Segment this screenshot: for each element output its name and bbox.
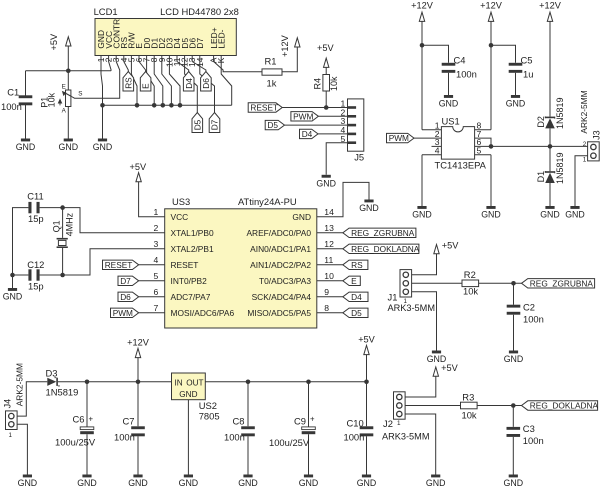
junction C8 tap [246, 380, 251, 385]
ground (C9) [299, 475, 319, 487]
wire C8 leads [247, 382, 249, 475]
net flag E (US3 pin10) [343, 276, 361, 286]
svg-text:+5V: +5V [130, 162, 147, 172]
svg-text:D4: D4 [184, 78, 194, 89]
svg-text:ARK3-5MM: ARK3-5MM [382, 431, 429, 441]
wire LCD pin 4 to flag RS [124, 56, 129, 72]
svg-text:US1: US1 [442, 115, 460, 126]
net flag RS (US3 pin11) [343, 260, 368, 270]
wire C7 leads [137, 382, 139, 475]
ground (C5) [506, 95, 526, 109]
svg-text:ARK2-5MM: ARK2-5MM [579, 90, 589, 133]
wire D5 to J5 pin3 [285, 124, 348, 126]
wire +12V arrow stem [137, 358, 139, 382]
ground (J5) [316, 175, 336, 189]
svg-text:LCD HD44780 2x8: LCD HD44780 2x8 [160, 6, 239, 17]
junction crystal bottom [60, 273, 65, 278]
power +5V (US3 VCC) [130, 162, 147, 182]
svg-text:D6: D6 [120, 292, 131, 302]
svg-text:C6: C6 [73, 413, 85, 424]
net flag REG_DOKLADNA (J2) [522, 401, 599, 411]
svg-text:+5V: +5V [442, 241, 459, 251]
wire C3 leads [512, 406, 514, 475]
svg-text:J4: J4 [2, 399, 12, 409]
svg-text:2: 2 [583, 141, 587, 148]
svg-text:15p: 15p [28, 281, 44, 292]
wire C6 leads [86, 382, 88, 475]
svg-text:100n: 100n [114, 431, 135, 442]
svg-text:D7: D7 [120, 276, 131, 286]
wire R3 to REG_DOKLADNA [477, 405, 521, 407]
wire US3 pin14 to GND [317, 182, 369, 216]
diode D2 1N5819 [536, 97, 565, 129]
svg-text:12: 12 [324, 239, 334, 249]
connector J1 box [400, 270, 412, 297]
wire C4 leads [422, 45, 449, 95]
wire US1 pin3 stub [432, 145, 442, 147]
svg-text:1: 1 [583, 157, 587, 164]
svg-text:+5V: +5V [317, 43, 334, 53]
capacitor C5 [509, 63, 523, 73]
wire J1 pin1 to +5V [412, 254, 437, 275]
power +5V (LCD contrast) [49, 33, 71, 50]
junction R3/C3 [511, 403, 516, 408]
svg-text:100u/25V: 100u/25V [55, 436, 96, 447]
wire AREF to REG_ZGRUBNA [317, 232, 343, 234]
svg-text:AIN1/ADC2/PA2: AIN1/ADC2/PA2 [250, 260, 311, 270]
power +5V (J1) [434, 241, 459, 254]
svg-text:1: 1 [154, 207, 159, 217]
svg-text:10k: 10k [462, 409, 477, 420]
wire to E flag [317, 280, 343, 282]
wire US3 XTAL1 (pin2) to crystal [40, 208, 165, 233]
svg-text:9: 9 [324, 287, 329, 297]
wire LED+ (A) to R1 [214, 56, 262, 72]
net flag PWM (US1 pin2) [387, 133, 415, 143]
wire D2 to output node [549, 128, 551, 171]
ground (D1) [540, 206, 560, 220]
svg-text:D5: D5 [351, 308, 362, 318]
diode D3 1N5819 [46, 367, 79, 397]
capacitor C10 [360, 426, 374, 436]
svg-text:GND: GND [299, 478, 319, 487]
connector J3 box [588, 142, 600, 161]
wire R1 to +12V [282, 47, 297, 72]
net flag PWM (J5 pin2) [291, 111, 319, 121]
wire LCD CONTR (pin3) to P1 wiper [72, 56, 120, 99]
svg-text:6: 6 [154, 287, 159, 297]
wire crystal caps to GND [13, 208, 29, 288]
svg-text:1: 1 [397, 420, 401, 427]
svg-text:GND: GND [93, 142, 113, 152]
svg-text:INT0/PB2: INT0/PB2 [171, 276, 208, 286]
net flag RS (LCD) [123, 72, 134, 92]
wire R4 to RESET net [325, 91, 327, 108]
svg-text:4MHz: 4MHz [64, 212, 74, 236]
svg-text:RS: RS [123, 77, 133, 89]
net flag D7 (LCD) [209, 113, 220, 133]
net flag D6 (LCD) [201, 72, 212, 92]
svg-text:XTAL1/PB0: XTAL1/PB0 [171, 228, 214, 238]
svg-text:GND: GND [426, 478, 446, 487]
wire C1 leads [25, 71, 27, 139]
svg-text:E: E [141, 83, 151, 89]
wire PWM to US3 pin7 [139, 312, 165, 314]
svg-text:GND: GND [481, 210, 501, 220]
wire C10 leads [366, 382, 368, 475]
svg-text:GND: GND [565, 210, 585, 220]
capacitor C9 (electrolytic) [302, 415, 316, 435]
wire US2 GND pin [187, 400, 189, 475]
svg-text:GND: GND [18, 478, 38, 487]
svg-text:TC1413EPA: TC1413EPA [435, 160, 487, 171]
capacitor C11 [28, 202, 39, 213]
svg-text:10k: 10k [47, 92, 57, 107]
svg-text:D7: D7 [210, 119, 220, 130]
net flag D5 (LCD) [192, 113, 203, 133]
svg-text:+12V: +12V [280, 34, 290, 57]
svg-text:C8: C8 [233, 415, 245, 426]
wire J5 pin5 to GND [326, 143, 347, 175]
svg-text:GND: GND [439, 99, 459, 109]
svg-text:D2: D2 [536, 116, 546, 128]
crystal Q1 4MHz [52, 212, 75, 248]
svg-text:100n: 100n [523, 435, 544, 446]
ground (US2) [179, 475, 199, 487]
wire to REG_DOKLADNA [317, 248, 343, 250]
ground (J3) [565, 206, 585, 220]
svg-text:GND: GND [128, 478, 148, 487]
power +5V arrow (rail) [364, 345, 369, 354]
svg-text:C3: C3 [523, 423, 535, 434]
svg-text:15p: 15p [28, 213, 44, 224]
svg-text:2: 2 [154, 223, 159, 233]
svg-text:13: 13 [324, 223, 334, 233]
net flag D6 (US3 pin6) [118, 292, 139, 302]
ground (US3 pin14) [359, 200, 379, 214]
wire D7 to US3 pin5 [139, 280, 165, 282]
svg-text:OUT: OUT [186, 379, 203, 388]
ground (crystal) [3, 288, 23, 302]
power +12V arrow [488, 12, 493, 21]
wire RESET to US3 pin4 [139, 264, 165, 266]
wire US1 output (pin6) to J3 [475, 145, 588, 147]
svg-text:J1: J1 [388, 292, 398, 303]
svg-text:J5: J5 [354, 151, 364, 162]
wire +12V rails [422, 21, 550, 129]
wire R2 to REG_ZGRUBNA [479, 282, 522, 284]
wire +5V to LCD VCC (pin2) [26, 46, 112, 71]
svg-text:D5: D5 [267, 120, 278, 130]
wire to D5 flag [317, 312, 343, 314]
svg-text:10k: 10k [329, 76, 339, 91]
svg-text:C5: C5 [521, 54, 533, 65]
svg-text:+: + [310, 415, 315, 424]
svg-text:VCC: VCC [171, 212, 189, 222]
svg-text:3: 3 [154, 239, 159, 249]
svg-text:1u: 1u [523, 69, 533, 80]
svg-text:100n: 100n [224, 431, 245, 442]
wire J2 pin2 to R3 [405, 405, 460, 407]
ground (LCD bus) [93, 139, 113, 153]
svg-text:C9: C9 [294, 415, 306, 426]
wire to RS flag [317, 264, 343, 266]
svg-text:1N5819: 1N5819 [555, 97, 565, 129]
svg-text:GND: GND [504, 478, 524, 487]
svg-text:GND: GND [504, 354, 524, 364]
net flag D4 (US3 pin9) [343, 292, 368, 302]
svg-text:+5V: +5V [49, 33, 59, 50]
svg-text:5: 5 [154, 271, 159, 281]
svg-text:8: 8 [324, 303, 329, 313]
potentiometer P1 [40, 84, 83, 115]
svg-text:RS: RS [351, 260, 363, 270]
capacitor C1 [19, 95, 33, 105]
svg-text:100n: 100n [523, 313, 544, 324]
junction RESET/R4 [324, 105, 329, 110]
svg-text:AREF/ADC0/PA0: AREF/ADC0/PA0 [246, 228, 311, 238]
junction C6 tap [85, 380, 90, 385]
wire US1 pin5 to GND [475, 155, 491, 206]
wire J4 pin1 to GND [17, 424, 27, 474]
svg-text:GND: GND [3, 292, 23, 302]
svg-text:+12V: +12V [480, 0, 503, 10]
connector J5 [341, 99, 365, 163]
net flag REG_DOKLADNA (US3 pin12) [343, 244, 420, 254]
svg-text:R3: R3 [462, 391, 474, 402]
wire US1 pin8 to +12V [475, 129, 491, 131]
connector J2 box [394, 392, 406, 419]
svg-text:C2: C2 [523, 302, 535, 313]
wire PWM to US1 pin2 [414, 137, 441, 139]
svg-text:RESET: RESET [250, 103, 278, 113]
net flag E (LCD) [140, 72, 151, 92]
wire US3 XTAL2 (pin3) to crystal [40, 249, 165, 275]
capacitor C3 [507, 427, 521, 437]
svg-text:J2: J2 [383, 418, 393, 429]
svg-text:+: + [89, 415, 94, 424]
wire crystal leads [62, 208, 64, 275]
svg-text:REG_ZGRUBNA: REG_ZGRUBNA [530, 278, 594, 288]
svg-text:11: 11 [324, 255, 333, 265]
wire LCD pin 13 to flag D6 [192, 56, 206, 72]
ground (C2) [504, 351, 524, 365]
svg-text:7: 7 [154, 303, 159, 313]
capacitor C7 [131, 426, 145, 436]
ground (J4) [18, 475, 38, 487]
wire J4 pin2 to D3 [17, 382, 47, 416]
svg-text:AIN0/ADC1/PA1: AIN0/ADC1/PA1 [250, 244, 311, 254]
svg-text:S: S [78, 91, 82, 98]
junction C5 tap [489, 43, 494, 48]
net flag D4 (LCD) [183, 72, 194, 92]
svg-text:PWM: PWM [389, 133, 409, 143]
svg-text:4: 4 [154, 255, 159, 265]
wire C9 leads [308, 382, 310, 475]
resistor R2 [462, 269, 479, 296]
svg-text:100n: 100n [456, 69, 477, 80]
svg-text:100n: 100n [344, 431, 365, 442]
svg-text:GND: GND [359, 203, 379, 213]
svg-text:1: 1 [9, 432, 13, 439]
ground (P1) [59, 139, 79, 153]
IC US1 TC1413EPA [435, 115, 487, 170]
svg-text:LCD1: LCD1 [94, 6, 118, 17]
wire J1 pin3 to GND [412, 292, 437, 351]
connector J4 box [6, 411, 18, 430]
wire LCD pin1 to GND [101, 56, 103, 139]
IC US2 7805 regulator [172, 373, 220, 422]
svg-text:Q1: Q1 [52, 220, 62, 232]
net flag D5 (J5 pin3) [265, 120, 284, 130]
junction output node [548, 144, 553, 149]
net flag RESET (US3 pin4) [103, 260, 139, 270]
junction +5V node [66, 69, 71, 74]
svg-text:D4: D4 [302, 129, 313, 139]
capacitor C6 (electrolytic) [80, 415, 94, 435]
svg-text:IN: IN [175, 379, 183, 388]
net flag RESET (J5 pin1) [248, 103, 282, 113]
svg-text:LED-: LED- [216, 29, 226, 48]
IC US3 ATtiny24A-PU [154, 196, 335, 328]
svg-text:1N5819: 1N5819 [555, 152, 565, 184]
svg-text:XTAL2/PB1: XTAL2/PB1 [171, 244, 214, 254]
svg-text:GND: GND [59, 142, 79, 152]
capacitor C8 [241, 426, 255, 436]
wire LCD pin 12 to flag D5 [185, 56, 198, 113]
wire LCD pin 6 to flag E [139, 56, 146, 72]
wire D4 to J5 pin4 [318, 133, 348, 135]
wire US2 OUT rail [205, 381, 366, 383]
power +12V arrow [419, 12, 424, 21]
svg-text:100u/25V: 100u/25V [269, 437, 310, 448]
wire PWM to J5 pin2 [318, 115, 347, 117]
wire US1 pin7 to pin6 [475, 138, 491, 146]
svg-text:C1: C1 [7, 87, 19, 98]
capacitor C2 [507, 305, 521, 315]
svg-text:R2: R2 [464, 269, 476, 280]
svg-text:PWM: PWM [293, 111, 313, 121]
ground (C8) [238, 475, 258, 487]
wire J3 pin1 to GND [575, 156, 588, 206]
svg-text:ARK3-5MM: ARK3-5MM [388, 303, 435, 313]
svg-text:7805: 7805 [199, 411, 220, 422]
svg-text:REG_ZGRUBNA: REG_ZGRUBNA [351, 228, 415, 238]
wire RESET to J5 pin1 [282, 107, 347, 109]
ground (J2) [426, 475, 446, 487]
svg-text:ATtiny24A-PU: ATtiny24A-PU [238, 196, 297, 207]
svg-text:D5: D5 [192, 119, 202, 130]
wire J1 pin2 to R2 [412, 282, 462, 284]
svg-text:10: 10 [324, 271, 334, 281]
svg-text:RESET: RESET [171, 260, 199, 270]
ground (C1) [16, 139, 36, 153]
svg-text:RESET: RESET [105, 260, 133, 270]
svg-text:GND: GND [316, 179, 336, 189]
svg-text:R1: R1 [265, 55, 277, 66]
svg-text:C12: C12 [27, 259, 44, 270]
svg-text:US2: US2 [199, 400, 217, 411]
svg-text:C7: C7 [123, 415, 135, 426]
svg-text:D1: D1 [536, 171, 546, 183]
junction pins6-7 [489, 144, 494, 149]
capacitor C12 [28, 269, 39, 280]
net flag D5 (US3 pin8) [343, 308, 368, 318]
svg-text:10k: 10k [463, 285, 478, 296]
power +12V (backlight) [280, 34, 300, 57]
junction crystal top [60, 205, 65, 210]
net flag REG_ZGRUBNA (J1) [522, 278, 595, 288]
capacitor C4 [442, 63, 456, 73]
svg-text:+12V: +12V [127, 337, 150, 347]
svg-text:D6: D6 [201, 78, 211, 89]
diode D1 1N5819 [536, 152, 565, 184]
wire GND bus (pins 1,5,7-10,K) [103, 56, 232, 106]
svg-text:GND: GND [412, 210, 432, 220]
svg-text:GND: GND [77, 478, 97, 487]
svg-text:GND: GND [506, 99, 526, 109]
svg-text:T0/ADC3/PA3: T0/ADC3/PA3 [259, 276, 311, 286]
wire C5 leads [491, 45, 516, 95]
ground (J1) [427, 351, 447, 365]
junction C4 tap [420, 43, 425, 48]
svg-text:REG_DOKLADNA: REG_DOKLADNA [530, 401, 599, 411]
wire US1 pin4 to GND [422, 155, 441, 206]
ground (C6) [77, 475, 97, 487]
svg-text:C4: C4 [454, 54, 466, 65]
svg-text:ADC7/PA7: ADC7/PA7 [171, 292, 211, 302]
svg-text:14: 14 [324, 207, 334, 217]
wire D3 to US2 IN [58, 381, 172, 383]
svg-text:E: E [62, 84, 66, 91]
power +5V (R4 pullup) [317, 43, 334, 67]
svg-text:GND: GND [292, 212, 311, 222]
power +12V arrow [547, 12, 552, 21]
svg-text:E: E [351, 276, 357, 286]
wire C2 leads [513, 283, 515, 350]
svg-text:C10: C10 [347, 417, 364, 428]
svg-text:1k: 1k [267, 78, 277, 89]
wire to D4 flag [317, 296, 343, 298]
connector LCD1 (LCD HD44780 2x8) [94, 6, 239, 67]
ground (US1 pin4) [412, 206, 432, 220]
wire +5V to US3 pin1 [139, 182, 165, 217]
svg-text:D3: D3 [46, 367, 58, 378]
wire +5V to R4 [325, 67, 327, 74]
ground (C7) [128, 475, 148, 487]
resistor R4 [312, 75, 339, 92]
svg-text:C11: C11 [27, 191, 44, 202]
svg-text:US3: US3 [172, 196, 190, 207]
svg-text:PWM: PWM [113, 308, 133, 318]
net flag D7 (US3 pin5) [118, 276, 139, 286]
wire D1 to GND [549, 183, 551, 206]
wire P1 leads [67, 71, 69, 139]
ground (C10) [357, 475, 377, 487]
net flag REG_ZGRUBNA (US3 pin13) [343, 228, 416, 238]
ground (C3) [504, 475, 524, 487]
svg-text:1N5819: 1N5819 [46, 386, 79, 397]
power +12V arrow (rail) [135, 348, 140, 357]
wire D6 to US3 pin6 [139, 296, 165, 298]
svg-text:J3: J3 [592, 130, 600, 140]
junctions GND bus [135, 103, 140, 108]
junction C11/C12 ground leg [10, 273, 15, 278]
power +5V (J2) [433, 363, 458, 376]
svg-text:+5V: +5V [358, 334, 375, 344]
net flag D4 (J5 pin4) [300, 129, 319, 139]
svg-text:+12V: +12V [411, 0, 434, 10]
